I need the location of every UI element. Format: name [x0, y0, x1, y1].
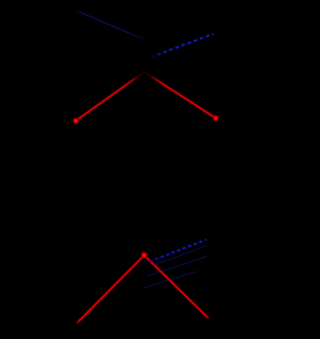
bottom dashed blue ray [150, 240, 207, 262]
bottom faint navy ray 1 [153, 245, 208, 265]
top red leg left [76, 72, 145, 121]
bottom faint navy ray 3 [144, 272, 197, 289]
top-right red dot [213, 115, 219, 121]
top incident navy ray [77, 11, 144, 39]
bottom red leg left [77, 255, 144, 323]
bottom red leg right [144, 255, 209, 318]
bottom apex red dot [141, 252, 148, 259]
top red leg right [144, 72, 216, 118]
bottom faint navy ray 2 [146, 257, 206, 277]
top-left red dot [73, 118, 79, 124]
top dashed blue ray [151, 34, 214, 57]
